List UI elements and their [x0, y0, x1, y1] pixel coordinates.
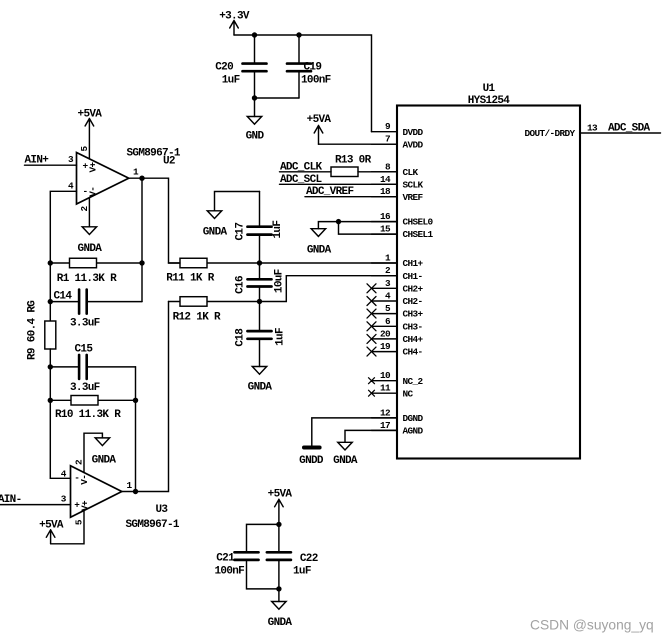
svg-text:7: 7	[385, 134, 390, 145]
junction C16/C18	[257, 299, 262, 304]
svg-text:8: 8	[385, 161, 391, 172]
junction U2 out	[139, 176, 144, 181]
svg-text:2: 2	[73, 459, 84, 465]
svg-text:GNDD: GNDD	[299, 455, 324, 467]
svg-text:NC_2: NC_2	[403, 376, 424, 387]
svg-text:C20: C20	[215, 62, 233, 74]
svg-text:+5VA: +5VA	[268, 488, 293, 500]
pin 18 VREF stub	[372, 196, 398, 198]
power flag +5VA (C22)	[275, 499, 284, 524]
ground GNDA (C18)	[252, 367, 266, 375]
svg-text:C19: C19	[304, 62, 322, 74]
pin 7 AVDD stub	[372, 143, 398, 145]
ground GNDA (C22)	[272, 602, 286, 610]
svg-text:20: 20	[380, 328, 391, 339]
svg-text:V+: V+	[79, 500, 90, 511]
wire U2 out to R11	[142, 178, 180, 263]
svg-text:1uF: 1uF	[222, 75, 240, 87]
pin 16 CHSEL0 stub	[372, 221, 398, 223]
power flag +5VA (U3)	[46, 530, 55, 544]
wire ADC_CLK	[280, 171, 332, 173]
wire CH1+ row	[169, 262, 398, 264]
svg-text:14: 14	[380, 174, 391, 185]
wire C15 right down	[135, 367, 137, 492]
pin 17 AGND stub	[372, 429, 398, 431]
svg-text:GNDA: GNDA	[307, 245, 332, 257]
svg-text:13: 13	[587, 123, 598, 134]
pin 20 CH4+ stub + no-connect X	[372, 338, 398, 340]
svg-text:R10 11.3K R: R10 11.3K R	[55, 409, 121, 421]
resistor R10	[50, 396, 135, 406]
svg-text:10: 10	[380, 370, 391, 381]
svg-text:HYS1254: HYS1254	[468, 95, 511, 107]
pin 1 CH1+ stub	[372, 262, 398, 264]
wire R13 to CLK	[358, 171, 397, 173]
junction R1 left	[48, 260, 53, 265]
pin 9 DVDD stub	[372, 131, 398, 133]
junction C22 top	[276, 522, 281, 527]
svg-text:DOUT/-DRDY: DOUT/-DRDY	[524, 128, 575, 139]
svg-text:11: 11	[380, 383, 391, 394]
svg-text:GNDA: GNDA	[78, 243, 103, 255]
capacitor C15	[50, 355, 135, 379]
svg-text:ADC_SDA: ADC_SDA	[608, 123, 651, 135]
svg-text:CHSEL0: CHSEL0	[403, 217, 434, 228]
svg-text:100nF: 100nF	[215, 565, 245, 577]
svg-text:CH4+: CH4+	[403, 334, 424, 345]
junction R10 left	[48, 398, 53, 403]
svg-text:16: 16	[380, 211, 391, 222]
svg-text:GNDA: GNDA	[333, 455, 358, 467]
wire AIN+ to pin 3	[25, 164, 77, 166]
svg-text:VREF: VREF	[403, 192, 424, 203]
svg-text:ADC_VREF: ADC_VREF	[306, 186, 353, 198]
svg-text:ADC_SCL: ADC_SCL	[280, 174, 323, 186]
svg-text:SCLK: SCLK	[403, 179, 424, 190]
svg-text:1: 1	[385, 253, 391, 264]
wire jog to CH1-	[260, 276, 398, 302]
svg-text:C18: C18	[235, 328, 247, 347]
svg-text:4: 4	[68, 180, 74, 191]
capacitor C19	[287, 35, 311, 98]
pin 13 DOUT stub + wire ADC_SDA	[580, 132, 661, 134]
resistor R13	[331, 167, 358, 177]
pin 11 NC stub + small x	[372, 392, 398, 394]
wire R1 left down	[49, 263, 51, 321]
pin 8 CLK stub	[372, 171, 398, 173]
power flag +5VA (U2) + pin 5 stem	[85, 119, 94, 159]
svg-text:R13 0R: R13 0R	[335, 154, 372, 166]
resistor R1	[50, 258, 142, 268]
svg-text:C22: C22	[300, 553, 318, 565]
junction C20 top	[252, 32, 257, 37]
svg-text:6: 6	[385, 316, 391, 327]
pin 6 CH3- stub + no-connect X	[372, 325, 398, 327]
junction R1 right	[139, 260, 144, 265]
svg-text:2: 2	[385, 265, 391, 276]
wire CHSEL0	[339, 221, 398, 223]
ground GNDA (chsel)	[311, 222, 338, 237]
junction U3 out	[133, 489, 138, 494]
capacitor C22	[267, 524, 291, 601]
wire AVDD	[319, 143, 398, 145]
svg-text:9: 9	[385, 121, 391, 132]
ground GNDA (C17)	[207, 192, 259, 219]
wire ADC_VREF	[305, 196, 397, 198]
svg-text:+5VA: +5VA	[307, 114, 332, 126]
op-amp U3 pin 5 stem	[51, 511, 84, 544]
capacitor C16	[248, 263, 272, 302]
junction R10 right	[133, 398, 138, 403]
svg-text:CH1-: CH1-	[403, 271, 423, 282]
svg-text:AIN+: AIN+	[25, 155, 50, 167]
op-amp U3 pin 2 stem	[84, 433, 102, 472]
svg-text:18: 18	[380, 186, 391, 197]
svg-text:+5VA: +5VA	[78, 109, 103, 121]
wire R10 left to U3 pin4	[50, 400, 70, 478]
svg-text:AGND: AGND	[403, 426, 424, 437]
wire U2 output	[129, 178, 142, 301]
wire ADC_SCL	[280, 183, 398, 185]
svg-text:1: 1	[133, 167, 139, 178]
op-amp U2 body	[77, 153, 129, 205]
svg-text:CH2+: CH2+	[403, 283, 424, 294]
ground GNDD (bar)	[304, 446, 320, 450]
svg-text:R12 1K R: R12 1K R	[173, 311, 221, 323]
wire pin 4 feedback	[50, 191, 76, 263]
junction C14 left	[48, 299, 53, 304]
svg-text:ADC_CLK: ADC_CLK	[280, 161, 323, 173]
junction C20 bottom	[252, 95, 257, 100]
power flag +3.3V	[230, 21, 239, 36]
svg-text:NC: NC	[403, 388, 414, 399]
svg-text:V-: V-	[79, 475, 90, 485]
svg-text:12: 12	[380, 407, 391, 418]
svg-text:CSDN @suyong_yq: CSDN @suyong_yq	[530, 618, 654, 633]
svg-text:CH3+: CH3+	[403, 309, 424, 320]
wire DGND	[312, 418, 397, 446]
svg-text:C21: C21	[216, 553, 235, 565]
wire +3.3V rail to DVDD	[234, 35, 372, 132]
junction C15 left	[48, 364, 53, 369]
svg-text:AVDD: AVDD	[403, 139, 424, 150]
capacitor C20	[243, 35, 267, 98]
svg-text:GND: GND	[246, 131, 265, 143]
svg-text:15: 15	[380, 224, 391, 235]
wire C20/C19 bottoms	[255, 97, 300, 99]
junction CHSEL	[336, 219, 341, 224]
svg-text:1uF: 1uF	[293, 565, 311, 577]
wire AGND	[345, 430, 397, 442]
svg-text:4: 4	[385, 291, 391, 302]
IC U1 body	[397, 106, 580, 459]
op-amp U3 body	[71, 466, 122, 518]
capacitor C17	[248, 192, 272, 264]
svg-text:5: 5	[79, 146, 90, 152]
svg-text:GNDA: GNDA	[248, 382, 273, 394]
svg-text:3: 3	[61, 494, 67, 505]
svg-text:3: 3	[385, 278, 391, 289]
svg-text:SGM8967-1: SGM8967-1	[126, 519, 180, 531]
junction C17/C16 (CH1+)	[257, 260, 262, 265]
capacitor C18	[248, 302, 272, 367]
pin 10 NC_2 stub + small x	[372, 380, 398, 382]
svg-text:1uF: 1uF	[274, 328, 286, 346]
svg-text:CH4-: CH4-	[403, 347, 423, 358]
svg-text:DVDD: DVDD	[403, 127, 424, 138]
svg-text:2: 2	[79, 206, 90, 212]
pin 5 CH3+ stub + no-connect X	[372, 313, 398, 315]
svg-text:GNDA: GNDA	[203, 227, 228, 239]
svg-text:R11 1K R: R11 1K R	[166, 272, 214, 284]
svg-text:100nF: 100nF	[301, 75, 331, 87]
wire R12 row	[169, 301, 260, 303]
pin 12 DGND stub	[372, 417, 398, 419]
svg-text:R9 60.4 RG: R9 60.4 RG	[27, 300, 39, 360]
wire U3 out to R12	[136, 302, 169, 492]
power flag +5VA (AVDD)	[314, 126, 323, 145]
svg-text:5: 5	[73, 519, 84, 525]
svg-text:GNDA: GNDA	[92, 454, 117, 466]
capacitor C21	[235, 552, 279, 589]
svg-text:C14: C14	[54, 291, 73, 303]
wire C21 top	[247, 524, 279, 551]
svg-text:DGND: DGND	[403, 413, 424, 424]
junction C19 top	[296, 32, 301, 37]
svg-text:1uF: 1uF	[272, 221, 284, 239]
pin 3 CH2+ stub + no-connect X	[372, 287, 398, 289]
svg-text:+5VA: +5VA	[39, 520, 64, 532]
svg-text:+3.3V: +3.3V	[219, 11, 250, 23]
ground GNDA (U2)	[82, 227, 96, 235]
svg-text:GNDA: GNDA	[268, 617, 293, 629]
ground GNDA (U3 pin2)	[95, 438, 109, 446]
pin 15 CHSEL1 stub	[372, 233, 398, 235]
svg-text:10uF: 10uF	[274, 269, 286, 293]
svg-text:3.3uF: 3.3uF	[70, 382, 100, 394]
pin 4 CH2- stub + no-connect X	[372, 300, 398, 302]
svg-text:CHSEL1: CHSEL1	[403, 229, 434, 240]
svg-text:U1: U1	[483, 83, 496, 95]
op-amp U2 pin 2 stem	[88, 198, 90, 227]
pin 19 CH4- stub + no-connect X	[372, 351, 398, 353]
resistor R9 (vertical)	[45, 321, 56, 400]
svg-text:1: 1	[126, 480, 132, 491]
wire AIN- to pin 3	[0, 504, 71, 506]
svg-text:V+: V+	[88, 161, 99, 172]
svg-text:C17: C17	[235, 223, 247, 241]
ground GNDA (agnd)	[338, 442, 352, 450]
svg-text:AIN-: AIN-	[0, 494, 21, 506]
svg-text:CH3-: CH3-	[403, 321, 423, 332]
svg-text:C15: C15	[75, 343, 94, 355]
svg-text:17: 17	[380, 420, 390, 431]
pin 14 SCLK stub	[372, 183, 398, 185]
resistor R11	[180, 258, 207, 268]
svg-text:U3: U3	[156, 504, 169, 516]
junction C22 bottom	[276, 586, 281, 591]
svg-text:U2: U2	[163, 156, 175, 168]
capacitor C14	[50, 290, 142, 314]
pin 2 CH1- stub	[372, 275, 398, 277]
svg-text:3: 3	[68, 154, 74, 165]
svg-text:CH2-: CH2-	[403, 296, 423, 307]
svg-text:CLK: CLK	[403, 167, 419, 178]
svg-text:R1 11.3K R: R1 11.3K R	[57, 273, 117, 285]
svg-text:5: 5	[385, 303, 391, 314]
svg-text:19: 19	[380, 341, 391, 352]
svg-text:CH1+: CH1+	[403, 258, 424, 269]
resistor R12	[180, 297, 207, 307]
svg-text:3.3uF: 3.3uF	[70, 318, 100, 330]
ground GND	[247, 98, 261, 124]
wire U3 output	[122, 491, 136, 493]
svg-text:V-: V-	[88, 187, 99, 197]
svg-text:C16: C16	[235, 276, 247, 294]
wire CHSEL1	[339, 222, 398, 235]
